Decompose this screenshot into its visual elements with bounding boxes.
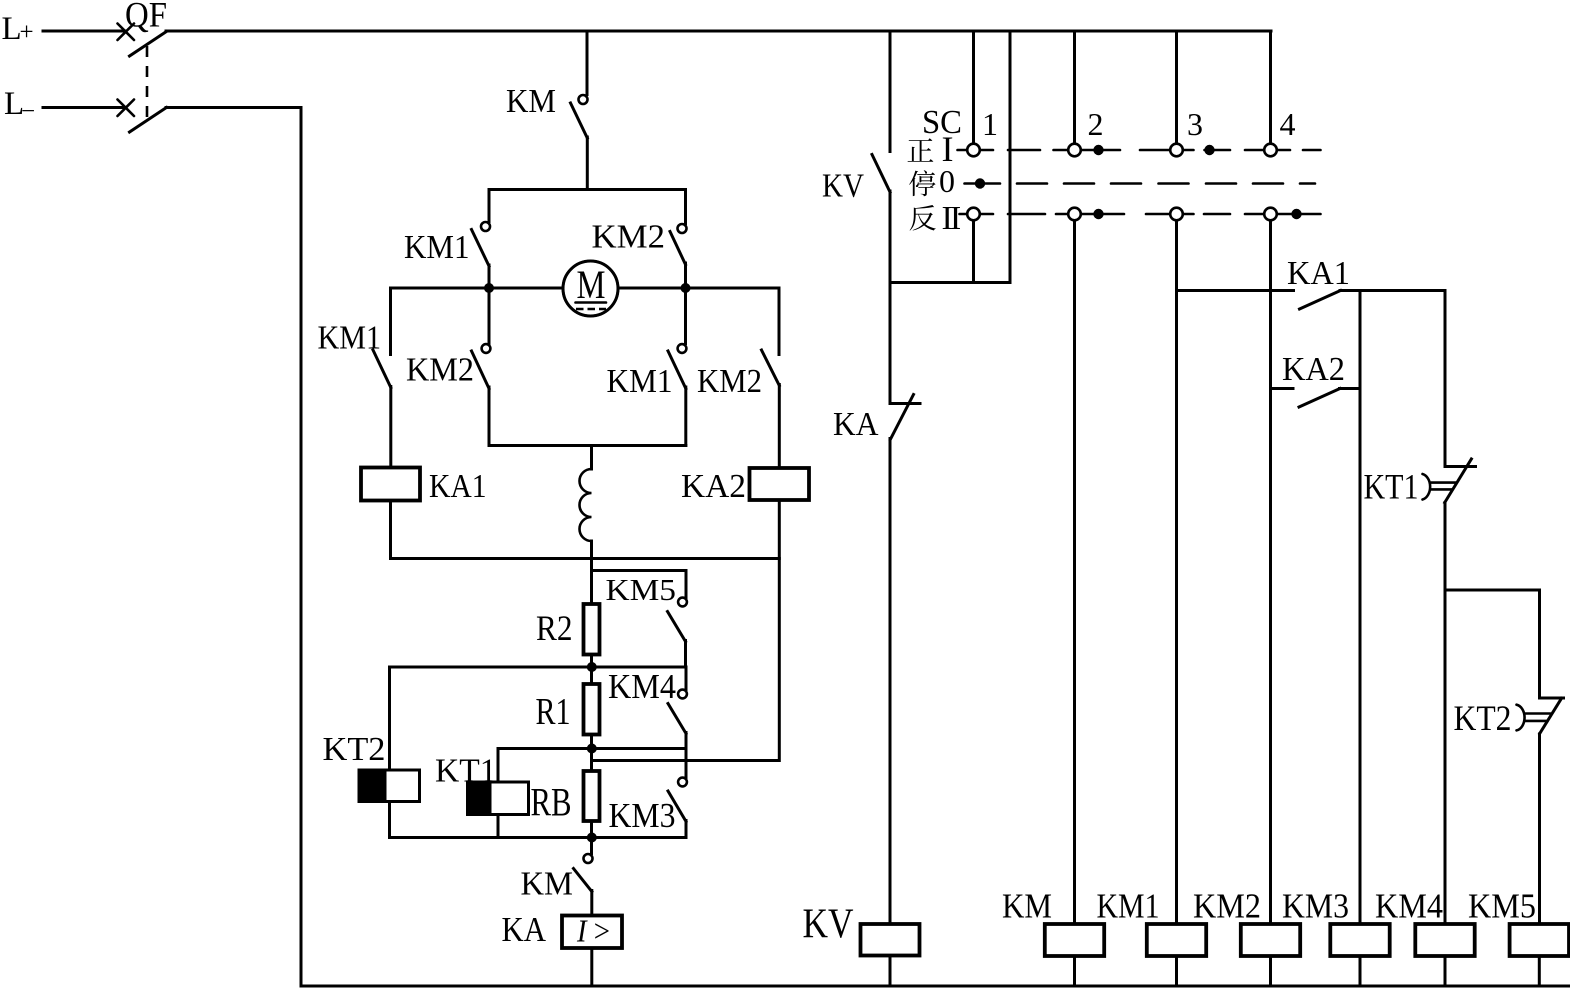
timer contact KT1 delayed <box>1423 291 1476 925</box>
SC closed dot row II pos2 <box>1093 209 1103 219</box>
wire SC bypass vertical <box>1009 31 1012 283</box>
SC row II dashed line <box>960 213 968 216</box>
svg-text:KT2: KT2 <box>1454 698 1512 738</box>
SC contact circle row I col 1 <box>967 144 980 157</box>
svg-text:3: 3 <box>1187 106 1203 142</box>
wire KM4-KM5 link <box>1445 589 1540 592</box>
wire column 4 upper <box>1269 31 1272 144</box>
SC closed dot row I pos3 <box>1204 145 1214 155</box>
junction node C <box>587 833 597 843</box>
svg-text:KV: KV <box>822 168 864 205</box>
wire SC feed loop <box>890 281 1010 284</box>
wire KA loop bottom <box>391 557 780 560</box>
svg-text:KM: KM <box>521 866 574 903</box>
reactor smoothing inductor <box>580 469 592 541</box>
wire KA2 down and across to RB node <box>592 500 780 761</box>
contact KM1 outer-left <box>373 288 391 468</box>
label row forward zheng-I <box>908 138 934 162</box>
contact KM2 upper-right <box>670 190 687 289</box>
overcurrent relay KA element I> <box>562 913 622 949</box>
wire node B row <box>498 747 686 750</box>
wire L- vertical and bottom bus <box>166 108 1569 987</box>
wire node A row <box>390 666 687 669</box>
svg-text:4: 4 <box>1280 106 1296 142</box>
timer contact KT2 delayed <box>1517 590 1564 924</box>
contact KA2 branch <box>1271 389 1361 408</box>
contact KM5 <box>592 571 687 668</box>
svg-text:KA1: KA1 <box>429 468 487 505</box>
SC contact circle row II col 2 <box>1068 208 1081 221</box>
svg-text:KV: KV <box>803 902 854 948</box>
svg-text:KM1: KM1 <box>1097 887 1160 926</box>
svg-text:RB: RB <box>531 780 572 825</box>
svg-text:KM5: KM5 <box>1468 887 1536 926</box>
svg-text:KA: KA <box>502 910 547 949</box>
SC row I dashed line <box>958 149 968 152</box>
relay coil KA2 <box>750 468 810 500</box>
SC closed dot row I pos2 <box>1093 145 1103 155</box>
contact KA normally-closed <box>890 283 920 925</box>
svg-text:KM2: KM2 <box>406 352 474 389</box>
contactor coil KM2 <box>1241 924 1300 956</box>
SC contact circle row I col 2 <box>1068 144 1081 157</box>
svg-text:KT1: KT1 <box>1364 467 1419 507</box>
wire KA element to bottom bus <box>590 948 593 986</box>
svg-text:KT1: KT1 <box>435 753 497 790</box>
svg-text:KM3: KM3 <box>1282 887 1349 926</box>
resistor R1 <box>584 667 600 749</box>
wire column 4 to coil KM2 <box>1269 221 1272 925</box>
svg-text:R2: R2 <box>536 608 573 648</box>
svg-text:II: II <box>942 200 961 237</box>
wire SC column 1 upper <box>972 31 975 144</box>
svg-text:KA2: KA2 <box>681 468 746 505</box>
SC contact circle row I col 3 <box>1170 144 1183 157</box>
contactor coil KM <box>1045 924 1104 956</box>
wire column 2 to coil KM <box>1073 221 1076 925</box>
svg-text:+: + <box>20 19 34 46</box>
svg-text:KT2: KT2 <box>323 731 386 768</box>
wire KA1 to bottom loop <box>389 501 392 559</box>
wire column 3 upper <box>1175 31 1178 144</box>
svg-text:KM1: KM1 <box>607 363 673 400</box>
timer coil KT2 flag <box>359 667 420 838</box>
svg-text:KM4: KM4 <box>608 667 676 706</box>
svg-text:KM: KM <box>1002 887 1052 926</box>
svg-text:KM: KM <box>506 83 556 120</box>
svg-text:KA: KA <box>833 406 879 443</box>
wire bridge top edge <box>489 188 686 191</box>
contactor coil KM4 <box>1415 924 1474 956</box>
contact KA1 branch <box>1177 291 1446 310</box>
wire KV coil to bus <box>889 956 892 987</box>
svg-text:KA2: KA2 <box>1282 351 1345 388</box>
label row stop ting-0 <box>909 170 936 196</box>
timer coil KT1 flag <box>468 749 529 838</box>
svg-text:KM1: KM1 <box>318 320 382 357</box>
svg-text:KM4: KM4 <box>1375 887 1443 926</box>
svg-text:KA1: KA1 <box>1287 255 1350 292</box>
wire top bus L+ <box>166 30 1271 33</box>
junction node left armature <box>484 283 494 293</box>
wire inductor to loop bottom <box>590 541 593 559</box>
contact KM3 <box>668 749 687 838</box>
svg-text:1: 1 <box>982 106 998 142</box>
wire bottom parallel row <box>390 836 687 839</box>
svg-text:2: 2 <box>1088 106 1104 142</box>
wire center stem to R2 <box>590 559 593 605</box>
contact KM4 <box>668 667 687 749</box>
SC contact circle row I col 4 <box>1264 144 1277 157</box>
svg-text:KM1: KM1 <box>404 229 470 266</box>
svg-text:KM2: KM2 <box>697 363 762 400</box>
svg-text:M: M <box>577 262 606 307</box>
wire column 2 upper <box>1073 31 1076 144</box>
wire L- lead-in <box>43 106 126 109</box>
circuit breaker QF <box>118 24 167 133</box>
contact KV voltage relay <box>872 31 890 283</box>
junction node B <box>587 744 597 754</box>
SC closed dot row 0 pos1 <box>975 178 985 188</box>
contact KM2 lower-left <box>472 288 491 446</box>
SC contact circle row II col 4 <box>1264 208 1277 221</box>
motor M armature <box>563 261 618 316</box>
label row reverse fan-II <box>910 205 936 231</box>
contact KM main <box>571 31 588 190</box>
svg-text:KM2: KM2 <box>592 219 666 256</box>
contactor coil KM1 <box>1147 924 1206 956</box>
wire bridge center stem <box>590 446 593 470</box>
SC closed dot row II pos4 <box>1291 209 1301 219</box>
junction node right armature <box>681 283 691 293</box>
contact KM lower <box>574 838 593 916</box>
svg-text:QF: QF <box>125 0 167 35</box>
wire R2 to node A <box>590 655 593 668</box>
svg-text:0: 0 <box>939 163 955 199</box>
wire SC column 1 lower <box>972 221 975 283</box>
wire armature row <box>391 287 565 290</box>
svg-text:R1: R1 <box>536 691 571 733</box>
svg-text:−: − <box>21 98 35 125</box>
contactor coil KM3 <box>1330 924 1389 956</box>
SC contact circle row II col 3 <box>1170 208 1183 221</box>
junction node A <box>587 662 597 672</box>
wire KM3 branch <box>1359 291 1362 925</box>
relay coil KV <box>861 924 920 956</box>
contact KM2 outer-right <box>762 288 780 468</box>
contactor coil KM5 <box>1510 924 1569 956</box>
contact KM1 lower-right <box>668 288 686 446</box>
resistor R2 <box>584 604 600 655</box>
SC contact circle row II col 1 <box>967 208 980 221</box>
svg-text:KM2: KM2 <box>1193 887 1261 926</box>
wire column 3 to coil KM1 <box>1175 221 1178 925</box>
wire L+ lead-in <box>43 30 126 33</box>
svg-text:KM5: KM5 <box>606 572 677 607</box>
resistor RB <box>584 749 600 838</box>
SC row 0 dashed line <box>965 182 1001 185</box>
svg-text:KM3: KM3 <box>609 796 676 835</box>
contact KM1 upper-left <box>472 190 491 289</box>
svg-text:I >: I > <box>576 913 610 949</box>
relay coil KA1 <box>361 468 420 501</box>
wire bridge bottom edge <box>489 444 686 447</box>
